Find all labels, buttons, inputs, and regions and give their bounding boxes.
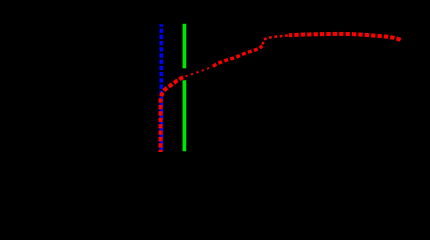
red dashed curve: steep rise and bend (thick dashes) (161, 77, 185, 152)
chart plot area (0, 0, 430, 185)
red dashed curve: fine-dash section after green line (186, 66, 213, 76)
red dashed curve: mid rise to kink (213, 46, 262, 66)
green vertical line lower segment (183, 80, 187, 151)
green vertical line upper segment (183, 24, 187, 69)
blue dashed vertical line (159, 24, 163, 152)
red dashed curve: plateau and gentle decline (thick dashes) (289, 34, 402, 41)
red dashed curve: kink and small-dash shoulder (263, 35, 288, 44)
